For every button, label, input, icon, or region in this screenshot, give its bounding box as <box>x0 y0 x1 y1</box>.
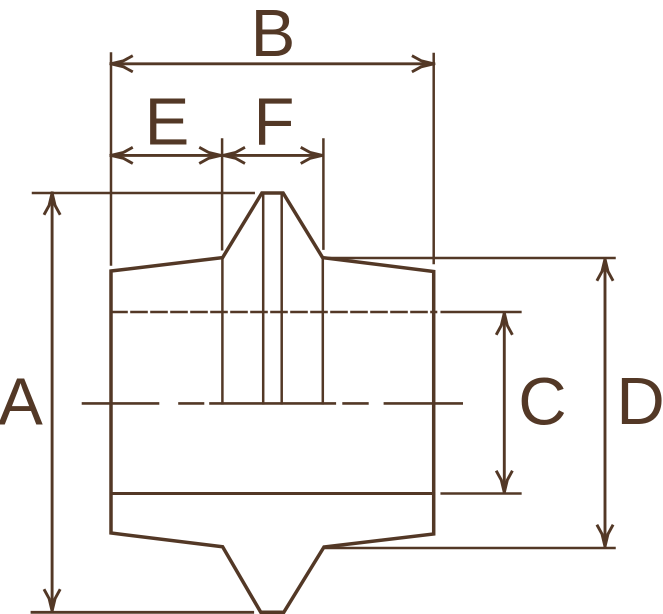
svg-text:B: B <box>251 0 296 71</box>
svg-text:A: A <box>0 364 43 439</box>
svg-text:C: C <box>518 364 566 439</box>
svg-text:F: F <box>254 85 295 160</box>
svg-text:D: D <box>616 364 663 439</box>
svg-text:E: E <box>145 85 190 160</box>
